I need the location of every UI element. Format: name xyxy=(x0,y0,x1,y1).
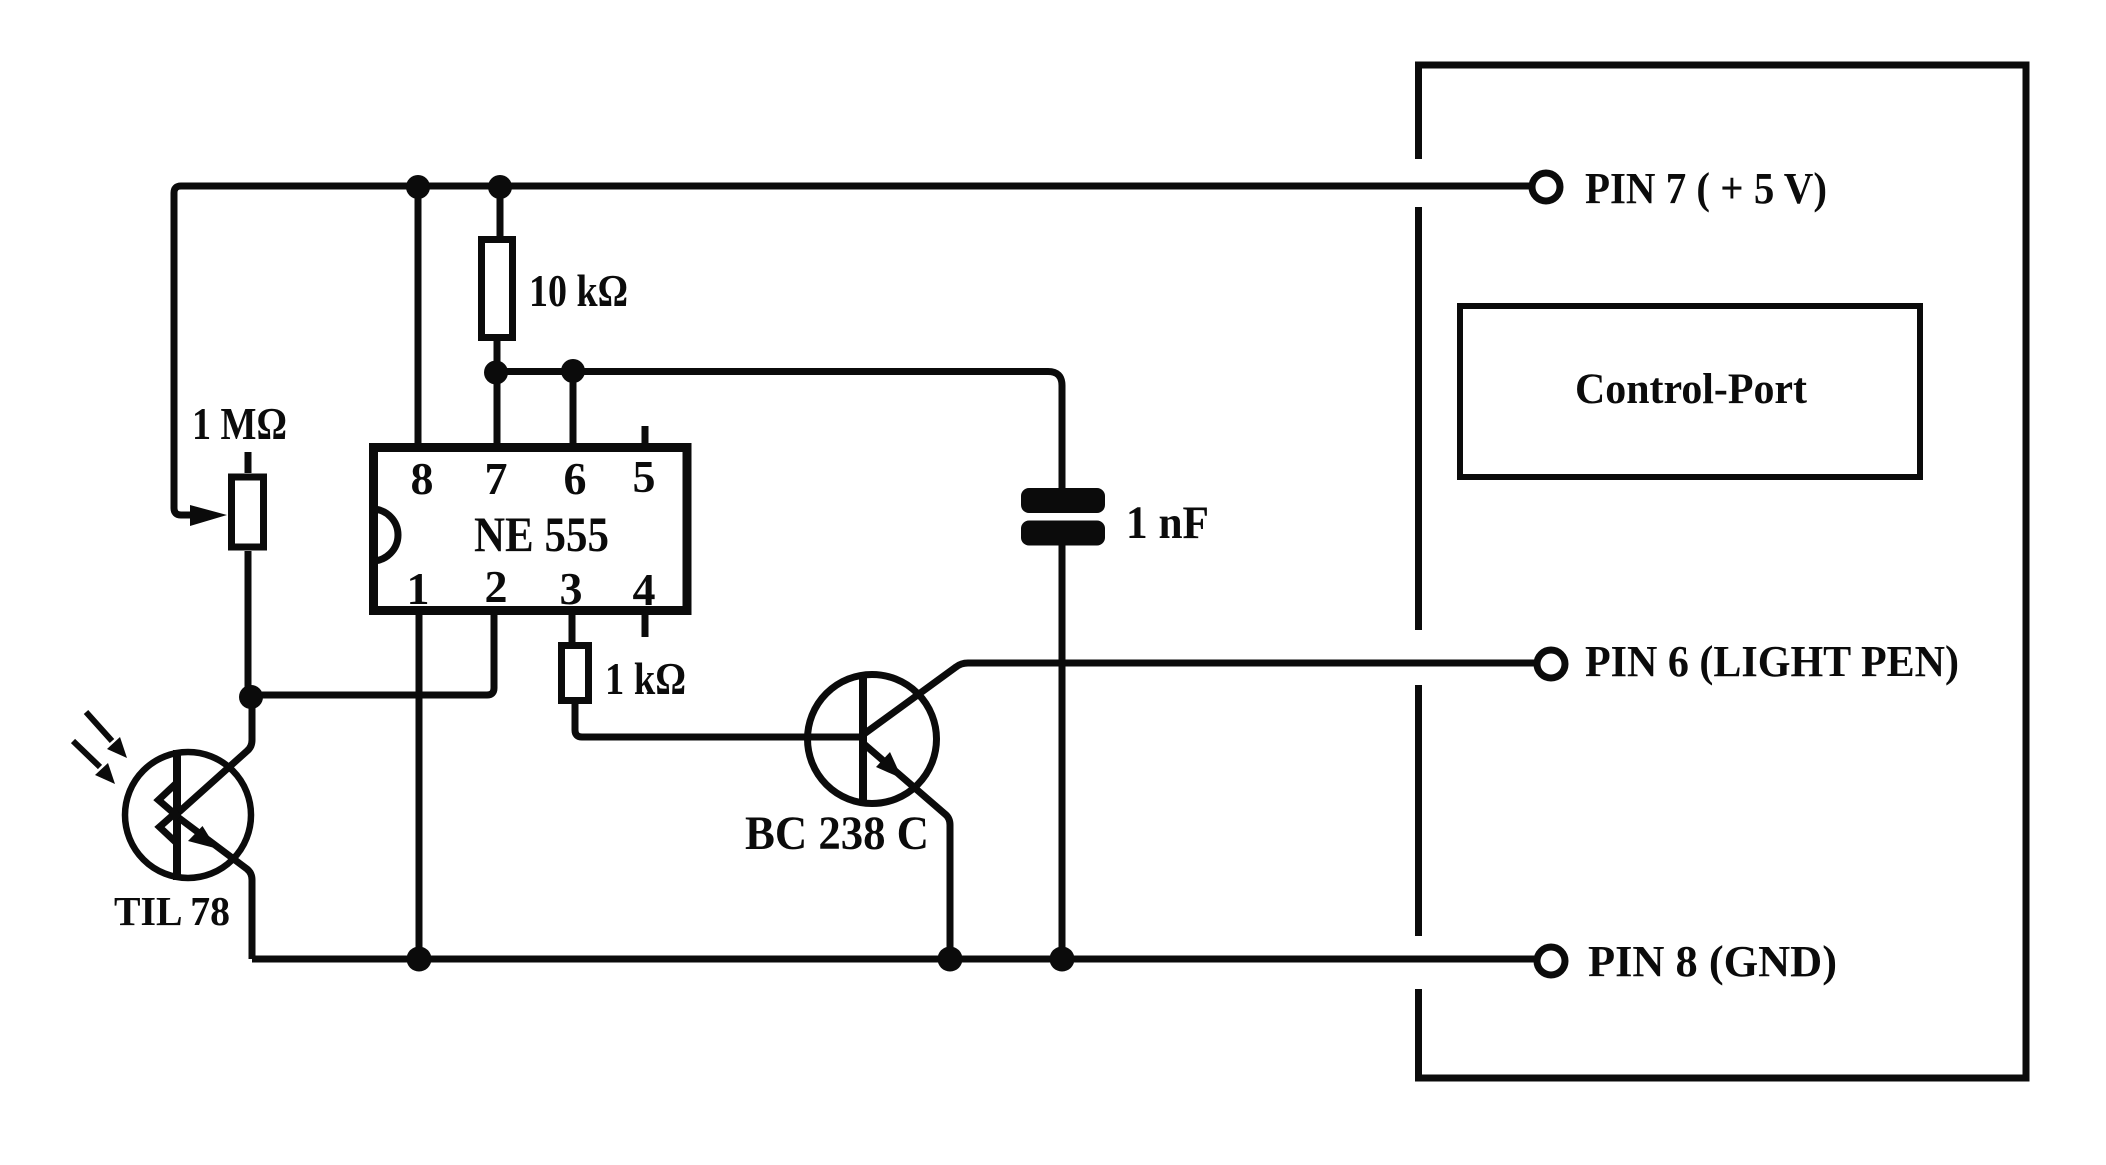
wire +5V top rail with left drop to potentiometer arrow xyxy=(174,186,1531,515)
wire IC pin 2 down and left to node A xyxy=(251,615,494,695)
Q2 collector wire to PIN 6 xyxy=(864,663,1535,734)
pin 4 stub xyxy=(642,615,649,637)
svg-text:1: 1 xyxy=(407,563,430,614)
light ray arrow 2 head xyxy=(95,763,115,784)
light ray arrow 1 head xyxy=(107,737,127,758)
control port outer box with wire gaps xyxy=(1419,65,2027,1078)
capacitor C1 top plate xyxy=(1021,488,1105,513)
TIL 78 collector wire up to node A xyxy=(179,697,252,812)
wire junction to IC pin 6 xyxy=(570,371,577,445)
svg-text:1 MΩ: 1 MΩ xyxy=(192,398,287,449)
svg-text:PIN 7 ( + 5 V): PIN 7 ( + 5 V) xyxy=(1585,164,1827,213)
wire from +5V rail to 10k resistor xyxy=(497,186,504,240)
PIN 8 terminal circle xyxy=(1537,947,1565,975)
Control-Port inner box xyxy=(1460,306,1920,477)
svg-text:8: 8 xyxy=(411,453,434,504)
wire from +5V rail to IC pin 8 xyxy=(415,186,422,445)
svg-text:10 kΩ: 10 kΩ xyxy=(529,265,628,316)
resistor 10 kOhm xyxy=(482,240,513,338)
light ray arrow 1 shaft xyxy=(86,712,112,741)
svg-text:3: 3 xyxy=(560,563,583,614)
svg-text:1 kΩ: 1 kΩ xyxy=(605,653,686,704)
TIL 78 photo chevron upper xyxy=(159,783,177,816)
svg-text:TIL 78: TIL 78 xyxy=(114,888,230,934)
wire from pin7 node right to capacitor drop xyxy=(496,372,1062,491)
junction node below 10k xyxy=(484,361,508,385)
TIL 78 base bar xyxy=(173,750,181,880)
svg-text:4: 4 xyxy=(633,564,656,615)
svg-text:2: 2 xyxy=(485,561,508,612)
resistor 1 MOhm top stub xyxy=(245,452,252,473)
junction node on +5V rail at 10k drop xyxy=(488,175,512,199)
resistor 1 kOhm body xyxy=(562,646,589,701)
Q2 emitter wire to ground rail xyxy=(864,744,950,959)
TIL 78 emitter wire down to ground rail xyxy=(179,818,252,959)
wire IC pin 1 to ground rail xyxy=(416,615,423,959)
junction node emitter/ground xyxy=(938,947,963,972)
junction node pin1/ground xyxy=(407,947,432,972)
svg-text:6: 6 xyxy=(564,453,587,504)
junction node on +5V rail at pin8 drop xyxy=(406,175,430,199)
TIL 78 photo chevron lower xyxy=(160,812,178,843)
wire 1k bottom to Q2 base xyxy=(575,704,859,737)
wire 10k bottom to IC pin 7 xyxy=(494,341,501,445)
svg-text:PIN 8 (GND): PIN 8 (GND) xyxy=(1588,937,1837,986)
transistor Q1 TIL 78 body circle xyxy=(125,752,251,878)
op-amp U1 NE 555 body xyxy=(374,448,688,611)
svg-text:NE 555: NE 555 xyxy=(474,506,609,562)
potentiometer wiper arrowhead xyxy=(190,505,227,526)
svg-text:5: 5 xyxy=(633,451,656,502)
svg-text:7: 7 xyxy=(485,453,508,504)
resistor 1 MOhm body xyxy=(232,477,264,547)
PIN 6 terminal circle xyxy=(1537,650,1565,678)
pin 5 stub xyxy=(642,426,649,443)
Q2 base bar xyxy=(859,675,867,801)
wire IC pin 3 to 1k resistor xyxy=(569,615,576,644)
ground rail wire xyxy=(252,956,1535,963)
svg-text:Control-Port: Control-Port xyxy=(1575,366,1808,413)
PIN 7 terminal circle xyxy=(1532,173,1560,201)
wire 1 MOhm bottom to node A xyxy=(245,551,252,692)
junction node A (1M bottom / TIL78 collector) xyxy=(239,685,263,709)
svg-text:PIN 6 (LIGHT PEN): PIN 6 (LIGHT PEN) xyxy=(1585,637,1959,686)
junction node above pin 6 xyxy=(561,359,585,383)
transistor Q2 BC 238 C body circle xyxy=(808,675,937,804)
svg-text:BC 238 C: BC 238 C xyxy=(745,807,929,860)
svg-text:1 nF: 1 nF xyxy=(1126,497,1209,549)
light ray arrow 2 shaft xyxy=(73,741,100,767)
Q2 emitter arrowhead xyxy=(876,752,902,779)
capacitor C1 bottom plate xyxy=(1021,521,1105,546)
junction node capacitor/ground xyxy=(1050,947,1075,972)
wire capacitor bottom to ground rail xyxy=(1059,543,1066,959)
IC notch xyxy=(372,509,398,561)
TIL 78 emitter arrowhead xyxy=(188,826,217,849)
